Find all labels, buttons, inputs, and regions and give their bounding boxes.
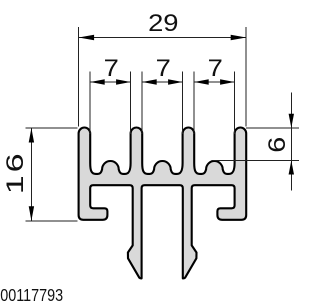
arrows 7 (channel 3) bbox=[194, 79, 209, 84]
dimension 16 extension lines bbox=[26, 127, 78, 129]
svg-text:6: 6 bbox=[263, 137, 290, 153]
dimension 29 line bbox=[79, 37, 247, 39]
dimension 7 (channel 3) extension lines bbox=[193, 72, 195, 135]
dimension 6 line bbox=[290, 93, 292, 191]
dimension 7 (channel 1) line bbox=[90, 81, 130, 83]
svg-text:29: 29 bbox=[148, 11, 178, 37]
dimension 16 line bbox=[30, 128, 32, 220]
arrows 7 (channel 2) bbox=[142, 79, 157, 84]
dimension 6 extension line top bbox=[246, 127, 299, 129]
profile body (extrusion cross-section) bbox=[79, 128, 247, 279]
dimension 7 (channel 2) line bbox=[142, 81, 182, 83]
svg-text:7: 7 bbox=[208, 56, 223, 82]
arrow top of 16 bbox=[29, 128, 34, 143]
dimension 7 (channel 3) line bbox=[194, 81, 234, 83]
dimension 29 extension line right bbox=[245, 27, 247, 126]
arrow right of 29 bbox=[231, 35, 247, 40]
arrow bottom of 16 bbox=[29, 206, 34, 221]
arrow below 6 (pointing up) bbox=[289, 161, 294, 175]
svg-text:00117793: 00117793 bbox=[0, 286, 63, 305]
svg-text:7: 7 bbox=[156, 56, 171, 82]
arrow above 6 (pointing down) bbox=[289, 114, 294, 128]
dimension 6 extension line bottom bbox=[212, 160, 299, 162]
dimension 7 (channel 2) extension lines bbox=[141, 72, 143, 135]
dimension 29 extension line left bbox=[78, 27, 80, 126]
arrow left of 29 bbox=[79, 35, 95, 40]
dimension 7 (channel 1) extension lines bbox=[89, 72, 91, 135]
svg-text:16: 16 bbox=[2, 151, 29, 195]
svg-text:7: 7 bbox=[104, 56, 119, 82]
arrows 7 (channel 1) bbox=[90, 79, 105, 84]
